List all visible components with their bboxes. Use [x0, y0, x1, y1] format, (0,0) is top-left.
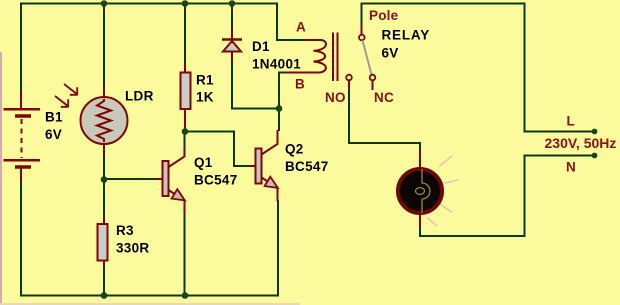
wire rail end down to relay coil A	[277, 3, 306, 41]
light arrow 1	[64, 84, 78, 95]
diode D1 cathode bar	[222, 38, 242, 41]
battery B1 short plate 1	[15, 114, 31, 118]
wire bottom rail	[20, 295, 279, 297]
wire N terminal to lamp	[420, 156, 592, 237]
battery B1 long plate 2	[4, 159, 41, 162]
svg-text:Q1: Q1	[194, 155, 213, 170]
lamp ray bottom	[427, 218, 437, 227]
terminal dot N	[592, 153, 598, 159]
wire pole to L terminal	[361, 4, 593, 132]
svg-text:B1: B1	[45, 110, 63, 125]
junction dot top rail LDR	[101, 0, 108, 7]
LDR body	[81, 97, 128, 144]
lamp ray right	[445, 180, 458, 183]
transistor Q1 emitter	[169, 190, 185, 214]
battery B1 long plate 1	[4, 108, 41, 111]
junction dot R1 bottom node	[182, 128, 189, 135]
junction dot node B	[276, 105, 283, 112]
LDR zigzag	[97, 99, 111, 142]
transistor Q2 base bar	[256, 149, 262, 184]
wire top rail	[20, 3, 278, 5]
relay coil top lead	[305, 39, 322, 41]
transistor Q1 base bar	[163, 161, 169, 196]
junction dot top rail D1	[229, 0, 236, 7]
diode D1 top lead	[231, 29, 233, 40]
battery B1 dashed cells	[21, 119, 23, 158]
svg-text:BC547: BC547	[194, 173, 238, 188]
diode D1 bottom lead	[231, 52, 233, 62]
svg-text:230V, 50Hz: 230V, 50Hz	[545, 135, 617, 151]
svg-text:L: L	[567, 114, 575, 129]
wire left rail	[20, 3, 22, 95]
wire left rail lower	[20, 180, 22, 297]
svg-text:D1: D1	[252, 39, 270, 54]
svg-text:R3: R3	[116, 223, 134, 238]
relay pole contact	[359, 35, 365, 41]
svg-text:1N4001: 1N4001	[252, 57, 301, 72]
lamp filament loop	[416, 188, 425, 195]
transistor Q2 base lead	[249, 165, 256, 167]
relay NC contact	[370, 75, 376, 81]
svg-text:LDR: LDR	[125, 89, 154, 104]
transistor Q1 emitter arrow	[172, 189, 185, 200]
wire node to Q2 base	[184, 132, 250, 167]
wire node to R3	[103, 180, 105, 220]
wire LDR bottom to node	[103, 153, 105, 180]
transistor Q1 collector	[169, 146, 185, 167]
lamp ray up-right	[439, 156, 452, 167]
relay coil humps	[314, 40, 327, 73]
transistor Q1 base lead	[155, 178, 163, 180]
relay NO contact	[346, 75, 352, 81]
lamp body	[398, 169, 442, 213]
lamp top lead	[419, 151, 421, 172]
LDR bottom lead	[103, 143, 105, 154]
light arrow 2	[55, 96, 69, 107]
battery B1 short plate 2	[15, 165, 31, 169]
battery B1 bottom lead	[20, 169, 22, 182]
junction dot bottom rail Q1	[182, 292, 189, 299]
wire D1 column top	[231, 3, 233, 31]
wire R3 to bottom rail	[103, 266, 105, 297]
lamp bottom lead	[419, 209, 421, 228]
relay coil bottom lead	[286, 72, 320, 74]
svg-text:6V: 6V	[382, 46, 399, 61]
transistor Q2 emitter arrow	[265, 177, 278, 188]
left edge artifact	[0, 52, 2, 305]
junction dot top rail R1	[182, 0, 189, 7]
svg-text:Pole: Pole	[369, 8, 399, 23]
lamp ray down-right	[440, 204, 452, 213]
wire pole column	[361, 3, 363, 27]
svg-text:RELAY: RELAY	[382, 28, 431, 43]
junction dot bottom rail R3	[101, 292, 108, 299]
wire coil B down to node	[279, 73, 287, 132]
relay core line 2	[337, 33, 339, 82]
wire Q1 collector to node	[184, 131, 186, 147]
junction dot LDR R3 node	[101, 176, 108, 183]
svg-text:N: N	[566, 160, 576, 175]
wire LDR column top	[103, 3, 105, 89]
resistor R3 leads	[103, 218, 105, 267]
terminal dot L	[592, 129, 598, 135]
transistor Q2 collector	[262, 130, 278, 155]
wire NO contact down to lamp top	[349, 89, 420, 152]
wire D1 bottom to node B	[232, 60, 279, 109]
svg-text:BC547: BC547	[285, 159, 329, 174]
svg-text:R1: R1	[196, 73, 214, 88]
svg-text:Q2: Q2	[285, 142, 304, 157]
svg-text:B: B	[295, 77, 305, 92]
resistor R1 body	[181, 73, 191, 110]
relay NO lead	[348, 81, 350, 91]
relay switch arm	[363, 40, 372, 74]
resistor R3 body	[98, 224, 108, 261]
bottom edge artifact	[0, 303, 300, 305]
svg-text:A: A	[296, 20, 306, 35]
svg-text:NO: NO	[325, 90, 346, 105]
svg-text:NC: NC	[374, 90, 394, 105]
svg-text:1K: 1K	[196, 90, 214, 105]
svg-text:330R: 330R	[116, 241, 149, 256]
lamp filament	[422, 169, 430, 213]
relay pole lead	[361, 25, 363, 34]
svg-text:6V: 6V	[45, 127, 62, 142]
resistor R1 leads	[184, 63, 186, 130]
wire Q2 emitter to bottom rail	[277, 200, 279, 297]
wire Q1 emitter to bottom rail	[184, 213, 186, 297]
relay core line 1	[332, 33, 334, 82]
wire R1 column top	[184, 3, 186, 65]
LDR top lead	[103, 87, 105, 98]
battery B1 top lead	[20, 93, 22, 108]
relay NC lead	[372, 81, 374, 91]
wire node to Q1 base	[103, 178, 156, 180]
transistor Q2 emitter	[262, 178, 278, 202]
diode D1 triangle	[223, 41, 241, 52]
